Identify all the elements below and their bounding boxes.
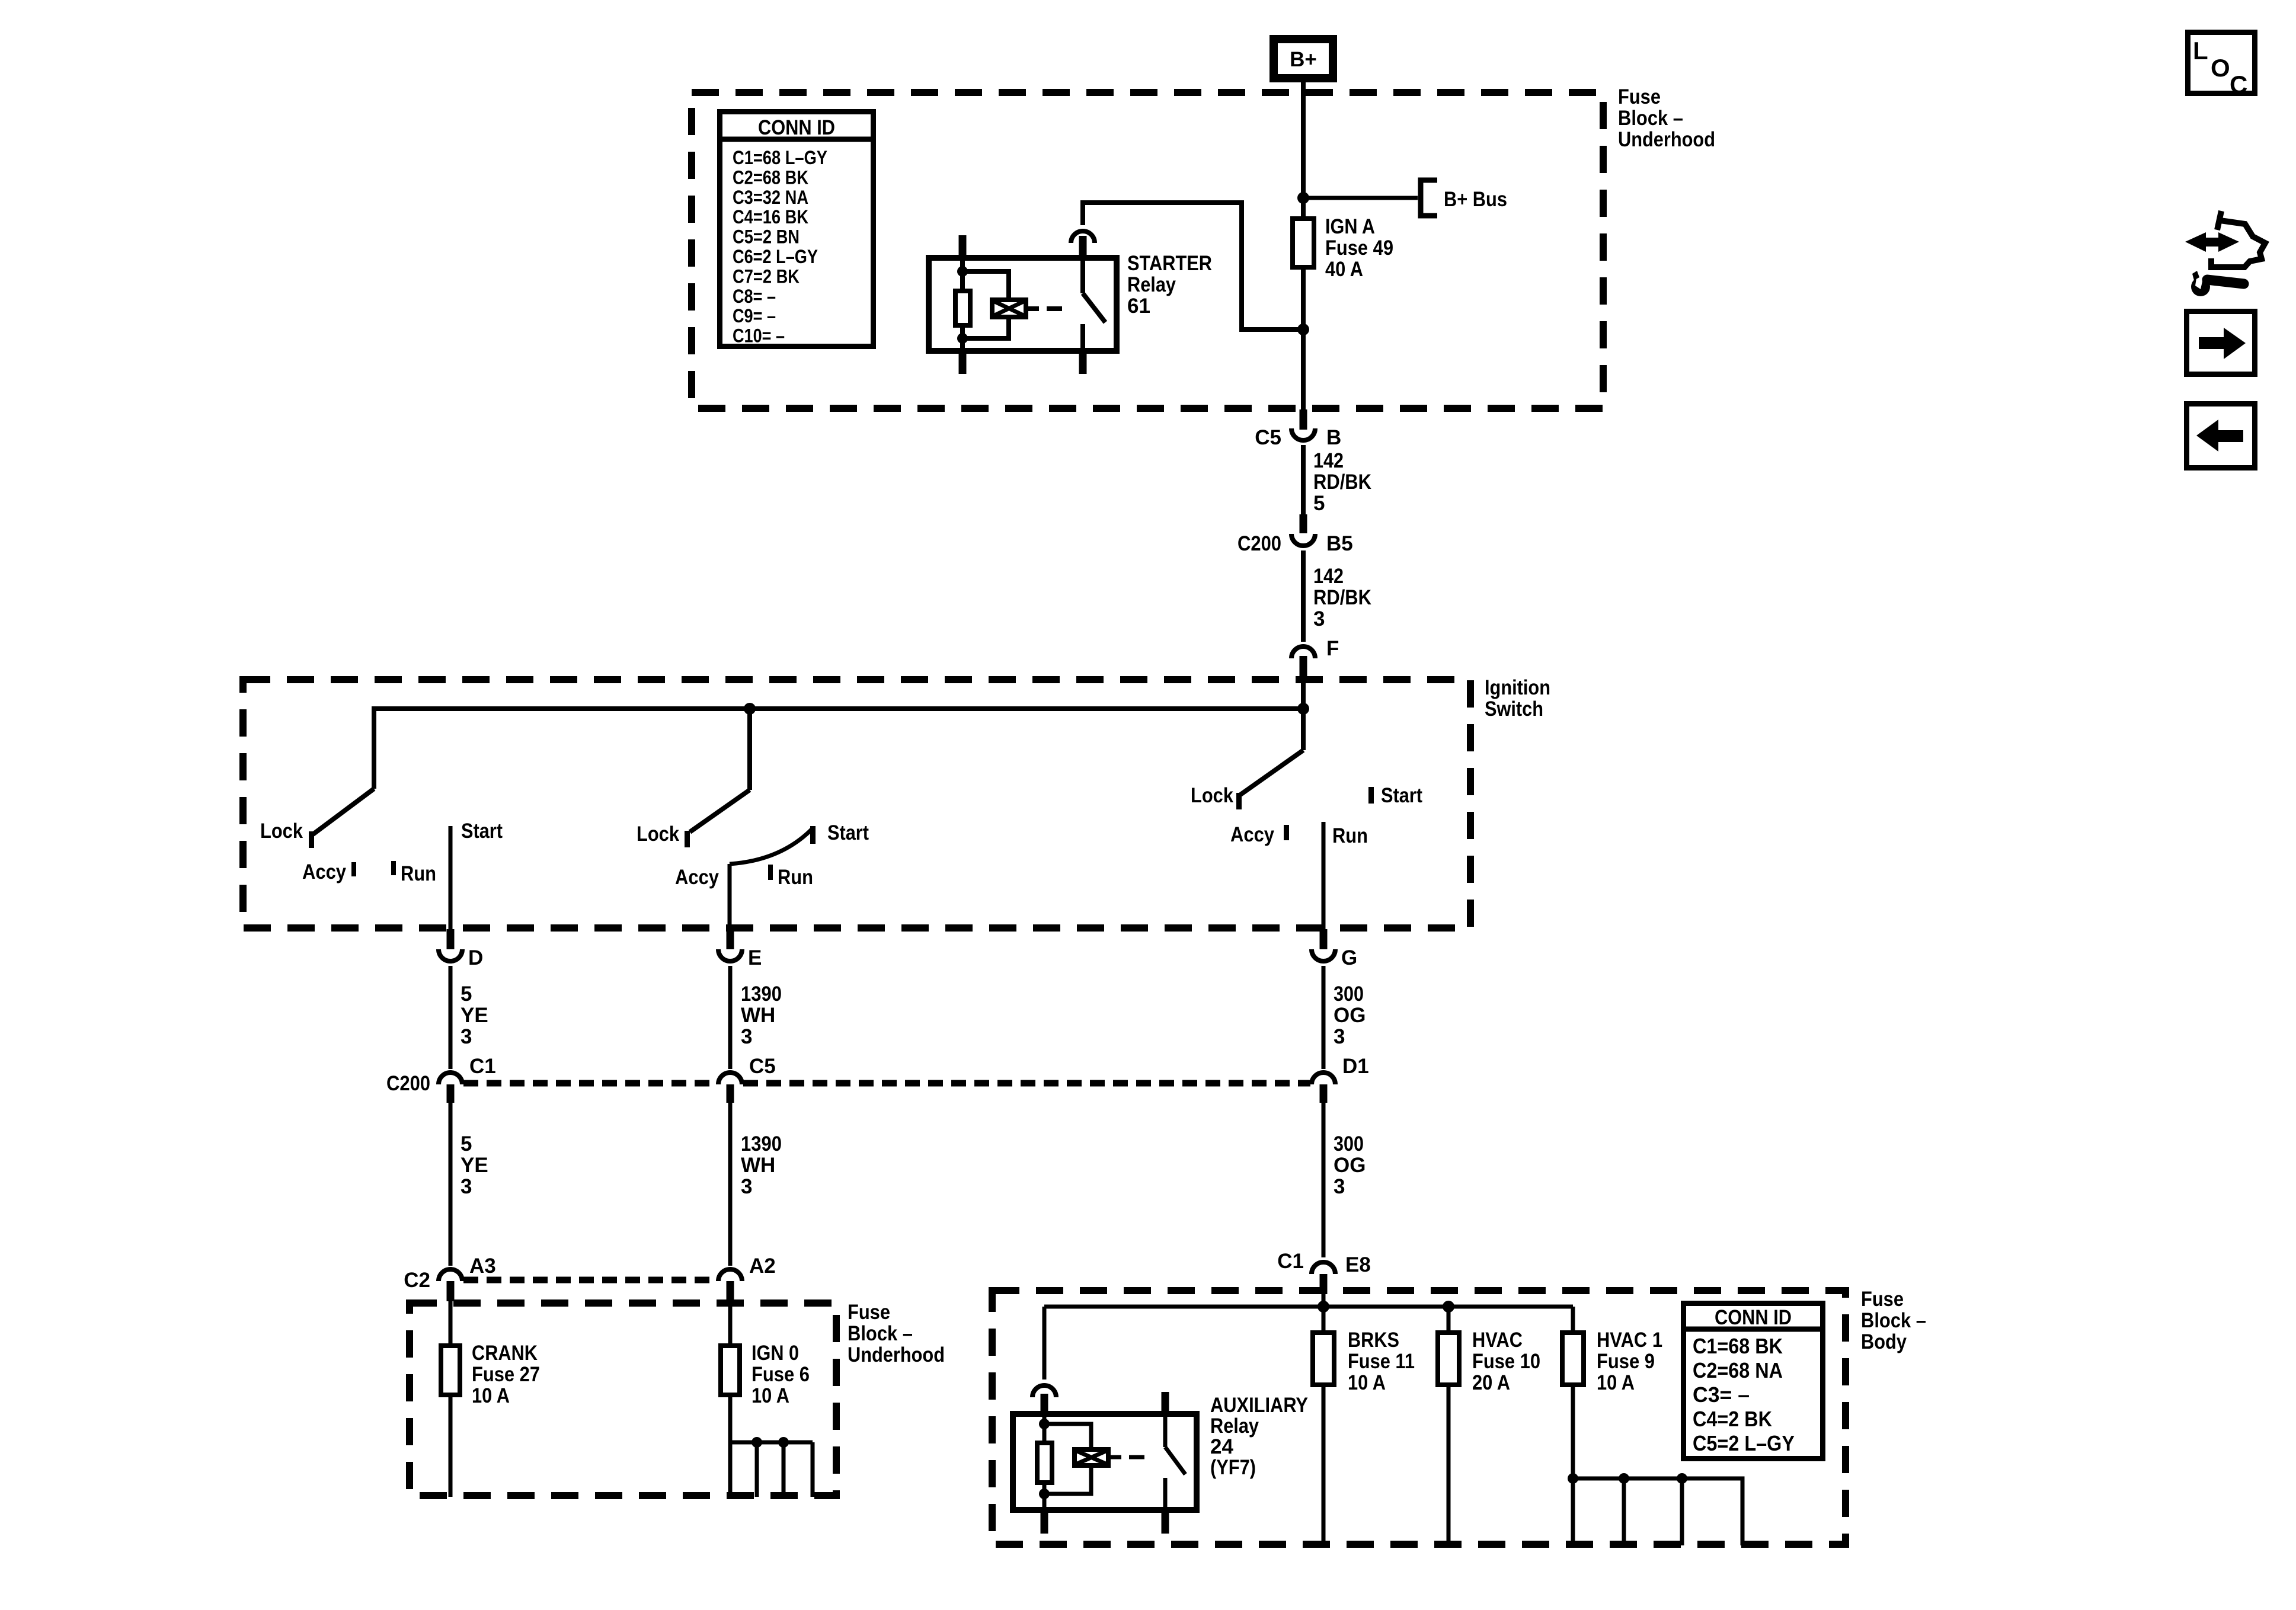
auxiliary relay K24 fixed contact (1163, 1411, 1168, 1447)
wire: bus to BRKS fuse (1322, 1307, 1326, 1332)
wire: distribution leg 3 (782, 1442, 786, 1497)
wire: HVAC 1 distribution bus (1573, 1478, 1742, 1545)
svg-text:Body: Body (1861, 1330, 1907, 1353)
svg-text:Fuse 9: Fuse 9 (1597, 1350, 1655, 1373)
connector C200 terminal B5 arc (1291, 534, 1315, 546)
svg-text:YE: YE (461, 1004, 488, 1027)
wire: distribution leg 1 (728, 1442, 733, 1497)
wafer3 movable arm (1240, 750, 1303, 795)
wire: distribution leg 2 (755, 1442, 759, 1497)
svg-text:Fuse 11: Fuse 11 (1348, 1350, 1415, 1373)
fuse F10 HVAC body (1438, 1333, 1459, 1385)
svg-text:AUXILIARY: AUXILIARY (1210, 1394, 1308, 1417)
connector C200 pin C1 stub (447, 1084, 455, 1103)
starter relay K61 box (929, 258, 1117, 351)
connector terminal G arc (1312, 949, 1335, 961)
fuse F9 HVAC 1 body (1562, 1333, 1584, 1385)
starter relay K61 contact pin stub bottom (1079, 353, 1087, 374)
mechanical link (dashed) K24 (1129, 1455, 1144, 1459)
svg-text:HVAC: HVAC (1472, 1329, 1523, 1352)
wafer3 Lock contact (1236, 793, 1242, 809)
svg-text:5: 5 (461, 1132, 472, 1156)
svg-text:Run: Run (1332, 824, 1368, 847)
wire: starter relay contact to fuse output (1083, 203, 1306, 329)
svg-text:40 A: 40 A (1325, 258, 1363, 281)
auxiliary relay K24 lower contact (1163, 1478, 1168, 1513)
wire: K61 winding to armature (1028, 306, 1039, 311)
arrow left glyph (2217, 430, 2243, 442)
svg-text:Fuse: Fuse (1861, 1288, 1904, 1311)
wire: K24 coil branch top (1043, 1411, 1047, 1441)
svg-text:CONN ID: CONN ID (1715, 1306, 1792, 1329)
svg-text:OG: OG (1334, 1154, 1366, 1177)
wire: K61 coil branch top (960, 255, 965, 289)
CONN ID table (underhood) frame (720, 112, 874, 347)
svg-text:HVAC 1: HVAC 1 (1597, 1329, 1662, 1352)
wire: bus to HVAC fuse (1447, 1307, 1451, 1332)
connector C200 pin D1 stub (1320, 1084, 1328, 1103)
fuse F27 CRANK body (441, 1346, 460, 1395)
diagnostic icon wrench (2191, 277, 2210, 296)
node: distribution junction 1 (752, 1437, 762, 1448)
fuse F6 IGN 0 body (721, 1346, 740, 1395)
wafer2 Run contact (768, 865, 773, 880)
svg-text:C10= –: C10= – (733, 325, 785, 347)
svg-text:10 A: 10 A (1348, 1371, 1386, 1394)
svg-text:Accy: Accy (675, 866, 719, 889)
wire: bus to HVAC 1 fuse (1571, 1307, 1575, 1332)
wire: body feed bus (1044, 1305, 1573, 1309)
wire: wafer3 drop (1301, 709, 1306, 750)
svg-text:D: D (468, 946, 483, 969)
arrow right glyph (2199, 337, 2225, 349)
svg-text:IGN A: IGN A (1325, 215, 1375, 238)
wire: B+ bus feed (1303, 196, 1418, 200)
connector C2 pin A2 stub (727, 1281, 734, 1301)
connector C200 terminal C5 arc (718, 1073, 742, 1084)
svg-text:C8= –: C8= – (733, 286, 776, 307)
svg-text:3: 3 (1334, 1025, 1345, 1048)
svg-text:Lock: Lock (637, 822, 679, 846)
connector terminal D arc (439, 949, 462, 961)
svg-text:C3=32 NA: C3=32 NA (733, 187, 808, 208)
fuse block underhood dashed box (692, 92, 1603, 408)
node: body distribution junction 3 (1677, 1473, 1687, 1484)
starter relay K61 contact pin arc (1071, 231, 1095, 243)
mechanical link (dashed) K61 (1047, 306, 1062, 311)
wire: wafer3 Run output (1322, 822, 1326, 933)
svg-text:L: L (2193, 37, 2208, 65)
connector C2 terminal A3 arc (439, 1269, 462, 1281)
svg-text:1390: 1390 (741, 982, 782, 1006)
CONN ID table (body) title separator (1681, 1327, 1825, 1332)
svg-text:Block –: Block – (1861, 1309, 1926, 1332)
node: body bus junction at BRKS (1318, 1301, 1329, 1313)
svg-text:3: 3 (741, 1025, 752, 1048)
wire: K61 winding top link (962, 271, 1009, 300)
wire: ignition switch feed bus (374, 706, 1303, 711)
connector C200 dashed body line (463, 1080, 717, 1087)
svg-text:Fuse: Fuse (1618, 85, 1661, 108)
svg-text:E8: E8 (1345, 1253, 1371, 1276)
navigation box arrow left (2187, 404, 2255, 468)
svg-text:3: 3 (1334, 1175, 1345, 1198)
node: distribution junction 2 (778, 1437, 789, 1448)
wire: HVAC 1 fuse output (1571, 1387, 1575, 1478)
connector C200 terminal C1 arc (439, 1073, 462, 1084)
starter relay K61 contact pin stub (1079, 236, 1087, 256)
wire 142 RD/BK 5 (1301, 445, 1306, 516)
svg-text:5: 5 (461, 982, 472, 1006)
svg-text:IGN 0: IGN 0 (752, 1342, 799, 1365)
connector C200 pin C5 stub (727, 1084, 734, 1103)
svg-text:Underhood: Underhood (848, 1343, 945, 1366)
svg-text:Run: Run (778, 866, 813, 889)
fuse block body dashed box (992, 1291, 1846, 1544)
svg-text:E: E (748, 946, 762, 969)
svg-text:C2: C2 (404, 1269, 430, 1292)
wire 300 OG 3 (lower) (1322, 1103, 1326, 1257)
starter relay K61 coil pin stub bottom (959, 353, 967, 374)
wire: wafer1 Start output (449, 826, 453, 933)
wire: wafer2 drop (747, 709, 752, 790)
svg-text:CONN ID: CONN ID (758, 116, 835, 139)
solenoid winding symbol K61 (992, 300, 1026, 317)
svg-text:3: 3 (1313, 607, 1325, 630)
starter relay K61 lower contact (1080, 324, 1085, 354)
starter relay K61 movable arm (1083, 293, 1105, 322)
svg-text:WH: WH (741, 1004, 775, 1027)
svg-text:300: 300 (1334, 1132, 1364, 1156)
svg-text:24: 24 (1210, 1435, 1233, 1458)
svg-text:Accy: Accy (302, 860, 346, 884)
wire: body distribution leg 3 (1680, 1478, 1684, 1545)
connector C200 pin B5 stub (1300, 514, 1307, 533)
svg-text:Start: Start (1381, 784, 1422, 807)
svg-text:10 A: 10 A (472, 1384, 510, 1407)
wire 300 OG 3 (upper) (1322, 966, 1326, 1069)
auxiliary relay K24 coil stub bottom (1041, 1512, 1048, 1534)
node: body distribution junction 1 (1568, 1473, 1578, 1484)
wire 5 YE 3 (upper) (449, 966, 453, 1069)
wire 1390 WH 3 (upper) (728, 966, 733, 1069)
wafer2 Lock contact (685, 831, 690, 847)
wire: A3 to CRANK fuse (449, 1301, 453, 1345)
svg-text:61: 61 (1127, 295, 1150, 318)
node: B+ bus tap junction (1297, 192, 1309, 204)
connector pin D stub (447, 929, 455, 949)
connector C1 pin E8 stub (1320, 1274, 1328, 1294)
svg-text:C6=2 L–GY: C6=2 L–GY (733, 246, 818, 267)
svg-text:C1: C1 (469, 1055, 496, 1078)
auxiliary relay K24 movable arm (1165, 1447, 1185, 1474)
svg-text:1390: 1390 (741, 1132, 782, 1156)
svg-text:C5=2 L–GY: C5=2 L–GY (1693, 1431, 1795, 1455)
svg-text:A3: A3 (469, 1254, 496, 1278)
connector C2 pin A3 stub (447, 1281, 455, 1301)
svg-text:F: F (1326, 637, 1339, 660)
svg-text:3: 3 (461, 1175, 472, 1198)
svg-text:Underhood: Underhood (1618, 128, 1715, 151)
wafer3 Accy contact (1284, 825, 1289, 840)
svg-text:(YF7): (YF7) (1210, 1456, 1256, 1479)
wire: IGN 0 fuse output (728, 1397, 733, 1442)
starter relay K61 fixed contact (1080, 255, 1085, 293)
svg-text:C200: C200 (386, 1072, 430, 1095)
node: K24 coil bottom junction (1039, 1489, 1050, 1499)
wafer1 Lock contact (309, 831, 314, 848)
connector C5 terminal B arc (1291, 428, 1315, 440)
svg-text:C4=16 BK: C4=16 BK (733, 206, 808, 228)
wire: distribution leg 4 (811, 1442, 815, 1497)
svg-text:B+: B+ (1290, 48, 1317, 71)
svg-text:Ignition: Ignition (1485, 676, 1550, 699)
svg-text:Fuse 10: Fuse 10 (1472, 1350, 1540, 1373)
connector pin G stub (1320, 929, 1328, 949)
svg-text:3: 3 (741, 1175, 752, 1198)
LOC reference box (2188, 33, 2255, 94)
connector C5 pin B stub (1300, 409, 1307, 430)
node: feed bus junction at wafer 3 (1297, 703, 1309, 715)
svg-text:Start: Start (461, 820, 503, 843)
B+ Bus bracket symbol (1421, 180, 1437, 216)
wire: wafer1 drop (372, 706, 376, 789)
svg-text:WH: WH (741, 1154, 775, 1177)
wire: body distribution leg 1 (1571, 1478, 1575, 1545)
wire: B+ terminal down to fuse 49 and C5 (1301, 78, 1306, 414)
svg-text:B5: B5 (1326, 532, 1353, 555)
auxiliary relay K24 box (1013, 1414, 1197, 1510)
svg-text:Block –: Block – (848, 1322, 913, 1345)
solenoid winding symbol K24 (1075, 1449, 1108, 1465)
node: K61 coil top junction (957, 266, 968, 277)
svg-text:C5: C5 (749, 1055, 776, 1078)
svg-text:Fuse: Fuse (848, 1301, 890, 1324)
wafer1 Run contact (391, 861, 396, 875)
svg-text:A2: A2 (749, 1254, 776, 1278)
wire 142 RD/BK 3 (1301, 550, 1306, 642)
svg-text:Block –: Block – (1618, 107, 1683, 130)
ignition switch dashed box (243, 680, 1470, 928)
connector pin E stub (727, 929, 734, 949)
svg-text:C2=68 NA: C2=68 NA (1693, 1358, 1783, 1382)
svg-text:C5=2 BN: C5=2 BN (733, 226, 800, 248)
svg-text:C1: C1 (1277, 1250, 1304, 1273)
connector C200 terminal D1 arc (1312, 1073, 1335, 1084)
svg-text:Lock: Lock (260, 820, 303, 843)
svg-text:Relay: Relay (1127, 273, 1176, 296)
wire: bus to auxiliary relay (1043, 1307, 1047, 1379)
svg-text:Fuse 6: Fuse 6 (752, 1363, 810, 1386)
svg-text:C2=68 BK: C2=68 BK (733, 167, 808, 188)
node: feed bus junction at wafer 2 (744, 703, 756, 715)
wire: K24 winding bottom link (1044, 1465, 1091, 1494)
svg-text:CRANK: CRANK (472, 1342, 538, 1365)
svg-text:O: O (2211, 54, 2230, 82)
svg-text:B: B (1326, 426, 1341, 449)
diagnostic icon component outline (2217, 211, 2221, 230)
svg-text:Switch: Switch (1485, 697, 1543, 721)
wire: K24 winding top link (1044, 1424, 1091, 1449)
wafer3 Start contact (1368, 787, 1374, 804)
svg-text:Start: Start (827, 821, 869, 844)
starter relay K61 coil pin stub top (959, 235, 967, 256)
fuse F11 BRKS body (1313, 1333, 1334, 1385)
svg-text:142: 142 (1313, 449, 1344, 472)
auxiliary relay K24 contact pin stub (1041, 1394, 1048, 1412)
connector C2 terminal A2 arc (718, 1269, 742, 1281)
wafer2 Start contact (810, 826, 816, 844)
svg-text:G: G (1341, 946, 1357, 969)
svg-text:BRKS: BRKS (1348, 1329, 1399, 1352)
svg-text:20 A: 20 A (1472, 1371, 1510, 1394)
svg-text:C200: C200 (1237, 532, 1281, 555)
node: K24 coil top junction (1039, 1419, 1050, 1429)
node: body bus junction at HVAC (1443, 1301, 1454, 1313)
wire: K24 winding to armature (1111, 1455, 1121, 1459)
connector F terminal arc (1291, 646, 1315, 658)
wire 5 YE 3 (lower) (449, 1103, 453, 1266)
svg-text:OG: OG (1334, 1004, 1366, 1027)
CONN ID table (body) frame (1684, 1304, 1823, 1459)
svg-text:Accy: Accy (1230, 823, 1274, 846)
power terminal B+ box (1274, 39, 1333, 78)
wafer2 Accy-Start curve (730, 828, 813, 864)
wire: K24 coil branch bottom (1043, 1485, 1047, 1513)
svg-text:STARTER: STARTER (1127, 252, 1212, 275)
svg-text:300: 300 (1334, 982, 1364, 1006)
svg-text:10 A: 10 A (1597, 1371, 1635, 1394)
diagnostic icon double arrow (2185, 232, 2206, 252)
wire: CRANK fuse output (449, 1397, 453, 1497)
wire: body distribution leg 2 (1622, 1478, 1626, 1545)
svg-text:C5: C5 (1255, 426, 1281, 449)
svg-text:Lock: Lock (1191, 784, 1233, 807)
resistor in K61 (955, 291, 970, 325)
svg-text:3: 3 (461, 1025, 472, 1048)
wire: F into ignition switch (1301, 676, 1306, 711)
svg-text:5: 5 (1313, 492, 1325, 515)
wire: K61 winding bottom link (962, 317, 1009, 338)
fuse F49 IGN A body (1293, 219, 1314, 267)
wire: A2 to IGN 0 fuse (728, 1301, 733, 1345)
connector terminal E arc (718, 949, 742, 961)
connector C1 terminal E8 arc (1312, 1262, 1335, 1274)
wire 1390 WH 3 (lower) (728, 1103, 733, 1266)
svg-text:RD/BK: RD/BK (1313, 586, 1371, 609)
svg-text:C1=68 L–GY: C1=68 L–GY (733, 147, 827, 168)
fuse block underhood (lower) dashed box (410, 1303, 836, 1496)
svg-text:Relay: Relay (1210, 1414, 1259, 1438)
svg-text:Fuse 27: Fuse 27 (472, 1363, 540, 1386)
wafer1 movable arm (313, 789, 374, 834)
svg-text:142: 142 (1313, 565, 1344, 588)
node: body distribution junction 2 (1619, 1473, 1629, 1484)
wire: E8 into fuse block body (1322, 1294, 1326, 1309)
wire: IGN 0 output distribution bus (730, 1441, 813, 1445)
auxiliary relay K24 contact stub top (1162, 1392, 1169, 1411)
svg-text:C3= –: C3= – (1693, 1382, 1750, 1407)
svg-text:YE: YE (461, 1154, 488, 1177)
svg-text:C: C (2230, 71, 2247, 98)
auxiliary relay K24 contact stub bottom (1162, 1512, 1169, 1534)
svg-text:D1: D1 (1342, 1055, 1369, 1078)
svg-text:C1=68 BK: C1=68 BK (1693, 1334, 1783, 1358)
wire: K61 coil branch bottom (960, 328, 965, 354)
node: K61 coil bottom junction (957, 333, 968, 344)
wire: HVAC fuse output (1447, 1387, 1451, 1548)
svg-text:10 A: 10 A (752, 1384, 789, 1407)
connector F pin stub (1300, 656, 1307, 676)
navigation box arrow right (2187, 312, 2255, 375)
wire: wafer2 Accy output (728, 864, 732, 933)
node: fuse 49 output junction (1297, 324, 1309, 335)
svg-text:C9= –: C9= – (733, 305, 776, 327)
resistor in K24 (1037, 1443, 1052, 1483)
connector C2 dashed body line (463, 1277, 717, 1283)
wafer2 movable arm (690, 790, 750, 832)
svg-text:B+ Bus: B+ Bus (1444, 188, 1507, 211)
CONN ID table (underhood) title separator (717, 137, 876, 142)
auxiliary relay K24 contact pin arc (1032, 1385, 1056, 1397)
svg-text:Run: Run (401, 862, 436, 885)
svg-text:RD/BK: RD/BK (1313, 470, 1371, 494)
wire: BRKS fuse output (1322, 1387, 1326, 1548)
wafer1 Accy contact (351, 862, 356, 876)
svg-text:C7=2 BK: C7=2 BK (733, 265, 800, 287)
svg-text:C4=2 BK: C4=2 BK (1693, 1407, 1772, 1431)
svg-text:Fuse 49: Fuse 49 (1325, 236, 1393, 260)
